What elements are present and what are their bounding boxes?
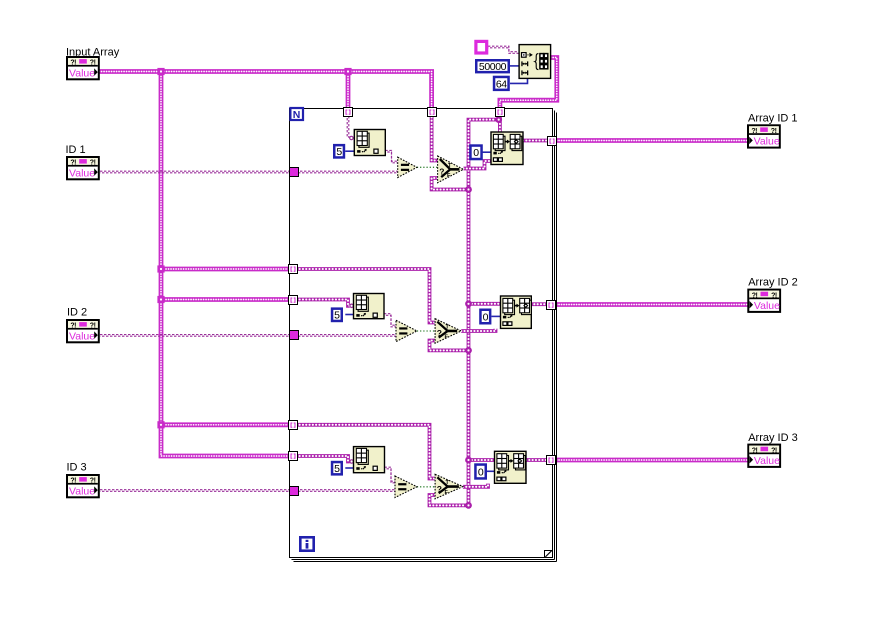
wire 5-const to index1 [345, 150, 354, 152]
numeric constant 5 row3 [332, 462, 342, 475]
tunnel row3 A [289, 421, 298, 430]
svg-text:?!: ?! [90, 160, 96, 167]
tunnel ID2 scalar [290, 331, 299, 340]
svg-text:?: ? [439, 167, 444, 177]
label for Array ID 2 indicator [748, 276, 798, 288]
tunnel T3 (initialized array) [496, 108, 505, 117]
terminal Array ID 1 indicator [748, 125, 780, 147]
terminal Array ID 3 indicator [748, 445, 780, 467]
svg-text:0: 0 [478, 466, 484, 478]
svg-text:0: 0 [483, 311, 489, 323]
junction row1 F join [465, 186, 472, 193]
wire left distribution trunk x161 [161, 72, 291, 457]
label for Input Array control [66, 46, 120, 58]
Index Array node row1 [354, 130, 385, 156]
junction trunk row3A [157, 421, 164, 428]
svg-text:?!: ?! [771, 447, 777, 454]
wire T3 drop into replace1 [498, 114, 502, 133]
numeric constant 0 row3 [475, 465, 485, 479]
wire init-array trunk x468 [469, 120, 500, 506]
numeric constant 0 row2 [480, 310, 490, 324]
svg-text:?: ? [437, 484, 442, 494]
junction trunk row2A [157, 265, 164, 272]
Initialize Array node [519, 45, 551, 79]
wire index3 out to equal3 [385, 467, 396, 483]
wire branch to tunnel T1 [346, 72, 351, 114]
svg-text:?!: ?! [70, 323, 76, 330]
Select node row1 [438, 156, 464, 183]
wire row2 tunnelA to select2 T [293, 269, 435, 323]
svg-text:?!: ?! [70, 160, 76, 167]
Equal? node row2 [396, 320, 417, 341]
svg-text:?!: ?! [70, 60, 76, 67]
wire 0-const to replace1 [482, 151, 492, 153]
wire-end curl index1 input curl [350, 136, 353, 139]
wire ID 3 value wire [100, 490, 395, 492]
label for Array ID 3 indicator [748, 432, 798, 444]
numeric constant 5 row1 [334, 145, 344, 158]
wire select3 F feed [430, 495, 469, 505]
junction main/trunk [157, 68, 164, 75]
terminal Input Array control [67, 57, 99, 79]
svg-text:Value: Value [69, 485, 95, 497]
junction trunk row2B [157, 296, 164, 303]
svg-text:?: ? [437, 328, 442, 338]
tunnel out row2 [547, 301, 556, 310]
wire variant const to init [488, 46, 519, 53]
Replace Array Subset node row1 [491, 132, 523, 165]
svg-text:?!: ?! [751, 128, 757, 135]
wire main Input Array bus [99, 72, 432, 114]
label for ID 3 control [67, 461, 87, 473]
loop count N [290, 108, 303, 121]
wire equal2 boolean out [417, 330, 435, 332]
Equal? node row3 [395, 476, 417, 498]
tunnel row2 A [289, 265, 298, 274]
wire ID 2 value wire [100, 335, 396, 337]
numeric constant 5 row2 [332, 309, 342, 322]
svg-text:?!: ?! [771, 128, 777, 135]
svg-text:?!: ?! [752, 292, 758, 299]
loop iterator i [300, 537, 313, 550]
terminal ID 3 control [67, 475, 99, 497]
svg-text:5: 5 [334, 310, 340, 322]
label for ID 1 control [66, 144, 86, 156]
wire row3 array-in to replace3 [469, 458, 495, 462]
wire row2 array feed A [161, 267, 291, 272]
tunnel out row3 [547, 456, 556, 465]
svg-text:?!: ?! [90, 478, 96, 485]
label for Array ID 1 indicator [748, 112, 798, 124]
wire row2 array-in to replace2 [469, 302, 501, 306]
wire T1 drop to index1 [347, 114, 349, 138]
wire Initialize Array output [500, 58, 557, 114]
svg-text:Value: Value [754, 300, 780, 312]
tunnel ID3 scalar [290, 487, 299, 496]
wire T2 drop to select1 T [432, 114, 438, 161]
wire row3 array feed A [161, 422, 291, 427]
wire Array ID 3 output wire [554, 458, 748, 463]
wire 64 to init [510, 78, 528, 83]
tunnel out row1 [548, 137, 557, 146]
terminal ID 1 control [67, 157, 99, 179]
wire select1 F feed [432, 178, 469, 190]
svg-text:ID 3: ID 3 [67, 461, 87, 473]
wire replace2 out [531, 302, 547, 306]
svg-text:5: 5 [336, 146, 342, 158]
junction row2 array join [465, 300, 472, 307]
loop resize corner [545, 550, 553, 558]
wire 5-const to index3 [345, 467, 353, 469]
wire replace3 out [526, 458, 547, 462]
wire index2 out to equal2 [384, 314, 396, 327]
wire select2 out to replace2 [461, 329, 495, 331]
tunnel row3 B [289, 452, 298, 461]
tunnel T2 (Input Array copy) [428, 108, 437, 117]
wire ID 1 value wire [100, 171, 398, 173]
svg-text:?!: ?! [771, 292, 777, 299]
numeric constant 64 [494, 77, 509, 90]
svg-text:Value: Value [69, 67, 95, 79]
Index Array node row3 [354, 447, 385, 473]
svg-text:Value: Value [754, 455, 780, 467]
svg-text:64: 64 [496, 78, 507, 90]
junction main/T1 [344, 68, 351, 75]
junction row2 F join [465, 347, 472, 354]
tunnel row2 B [289, 296, 298, 305]
junction row3 array join [465, 457, 472, 464]
wire-end curl index2 input curl [350, 304, 353, 307]
svg-text:?!: ?! [70, 478, 76, 485]
wire index1 out to equal1 [385, 150, 397, 162]
wire row3 tunnelA to select3 T [293, 425, 435, 479]
terminal ID 2 control [67, 320, 99, 342]
Equal? node row1 [398, 157, 417, 177]
svg-text:ID 2: ID 2 [67, 306, 87, 318]
wire-end curl index3 input curl [350, 460, 353, 463]
svg-text:?!: ?! [90, 323, 96, 330]
wire Array ID 2 output wire [554, 302, 748, 307]
svg-text:0: 0 [473, 147, 479, 159]
junction row3 F join [465, 502, 472, 509]
wire 50000 to init [510, 65, 519, 67]
wire select1 out to replace1 [463, 161, 492, 169]
svg-text:?!: ?! [90, 60, 96, 67]
wire 0-const to replace2 [491, 315, 500, 317]
tunnel ID1 scalar [290, 168, 299, 177]
wire select3 out to replace3 [463, 484, 488, 487]
wire select2 F feed [430, 341, 469, 351]
svg-text:ID 1: ID 1 [66, 144, 86, 156]
wire row2 array feed B [161, 297, 291, 302]
Select node row2 [435, 319, 461, 344]
numeric constant 0 row1 [470, 146, 481, 160]
svg-text:Array ID 2: Array ID 2 [748, 276, 798, 288]
terminal Array ID 2 indicator [748, 290, 780, 312]
numeric constant 50000 [476, 60, 509, 73]
junction T3 split [495, 116, 502, 123]
wire equal3 boolean out [417, 486, 435, 488]
wire 0-const to replace3 [487, 470, 495, 472]
wire replace1 out [523, 139, 548, 143]
svg-text:Array ID 1: Array ID 1 [748, 112, 798, 124]
svg-text:5: 5 [334, 463, 340, 475]
for-loop border [290, 109, 557, 562]
variant constant (empty) [476, 41, 487, 53]
wire row2 tunnelB to index2 [293, 300, 350, 306]
wire 5-const to index2 [345, 314, 353, 316]
svg-text:N: N [293, 109, 301, 121]
wire row3 tunnelB to index3 [293, 456, 350, 462]
Replace Array Subset node row3 [495, 451, 527, 483]
wire Array ID 1 output wire [554, 138, 748, 143]
tunnel T1 (Input Array, indexing) [344, 108, 353, 117]
Replace Array Subset node row2 [501, 296, 532, 328]
Select node row3 [435, 474, 463, 499]
svg-text:Value: Value [69, 330, 95, 342]
label for ID 2 control [67, 306, 87, 318]
wire equal1 boolean out [417, 166, 438, 168]
svg-text:Value: Value [754, 136, 780, 148]
Index Array node row2 [354, 294, 385, 319]
svg-text:Value: Value [69, 167, 95, 179]
svg-text:?!: ?! [752, 447, 758, 454]
svg-text:Array ID 3: Array ID 3 [748, 432, 798, 444]
svg-text:50000: 50000 [479, 61, 507, 73]
